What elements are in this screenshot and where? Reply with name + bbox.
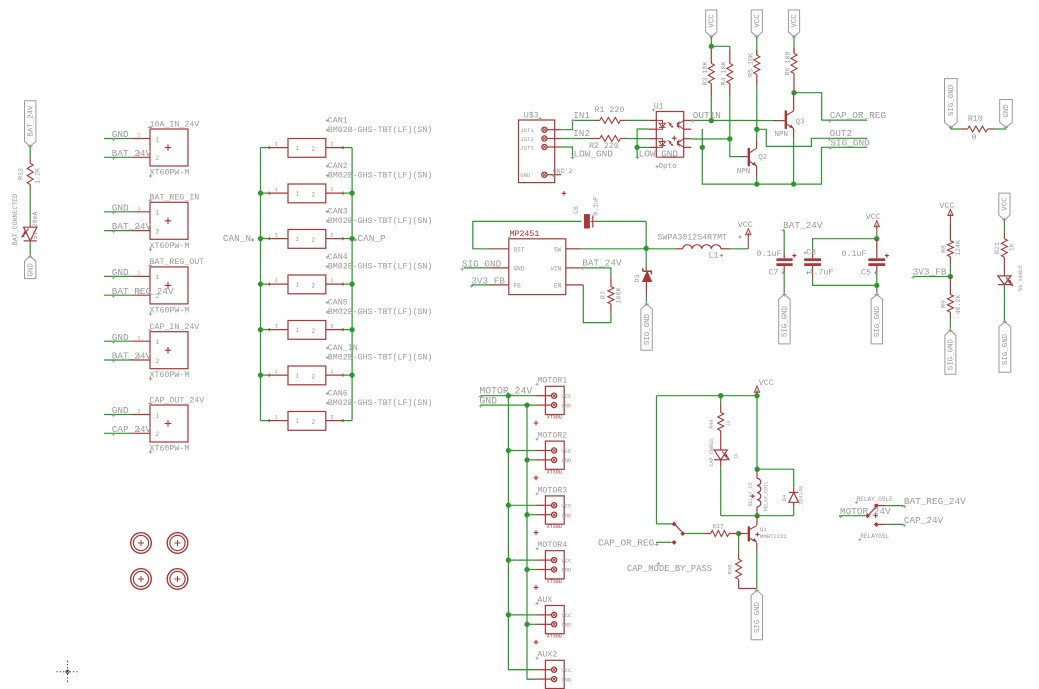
svg-text:1: 1 [156, 210, 160, 217]
ground flag SIG_GND (R9) [945, 328, 956, 374]
svg-text:XT30U: XT30U [547, 524, 562, 530]
connector MOTOR4 XT30 [534, 541, 572, 590]
svg-text:MOTOR3: MOTOR3 [537, 486, 567, 495]
svg-text:SIG_GND: SIG_GND [948, 339, 956, 371]
svg-text:RELAY_G5LE: RELAY_G5LE [857, 496, 893, 503]
svg-text:CAN6: CAN6 [328, 389, 348, 398]
wire MOTOR_24V [479, 385, 536, 398]
transistor Q2 NPN [737, 129, 767, 176]
svg-text:Opto: Opto [659, 163, 678, 171]
supply flag VCC (R21) [999, 193, 1010, 222]
svg-text:VCC: VCC [759, 379, 774, 388]
svg-text:VCC: VCC [562, 504, 572, 510]
wire [729, 96, 731, 139]
svg-text:CAP_24V: CAP_24V [112, 424, 152, 435]
wire [261, 147, 353, 149]
svg-text:IN1: IN1 [573, 110, 590, 121]
svg-text:VCC: VCC [791, 14, 799, 28]
junction [700, 145, 705, 150]
connector CAP_OUT_24V XT60PW-M [132, 396, 205, 454]
svg-text:2: 2 [330, 413, 333, 420]
svg-text:MOTOR2: MOTOR2 [537, 432, 567, 441]
junction [791, 181, 796, 186]
wire BAT_24V (VIN) [581, 258, 622, 277]
wire (Q1 base) [737, 533, 748, 535]
junction [258, 372, 355, 377]
wire GND [104, 202, 132, 214]
node CAN_P [354, 233, 386, 244]
label 3V3_FB (MP2451) [470, 276, 506, 288]
wire [756, 85, 758, 129]
svg-text:SIG_GND: SIG_GND [948, 84, 956, 116]
svg-text:1: 1 [156, 412, 160, 419]
svg-text:R48: R48 [728, 565, 734, 575]
capacitor C6 origin [562, 191, 566, 195]
junction [874, 283, 879, 288]
junction [709, 118, 714, 123]
junction [644, 221, 649, 251]
svg-text:1: 1 [156, 274, 160, 281]
wire [756, 396, 758, 470]
wire [1003, 257, 1005, 276]
svg-text:VCC: VCC [562, 394, 572, 400]
svg-text:R9: R9 [940, 300, 947, 308]
svg-text:1: 1 [295, 282, 299, 289]
LED CAP_CHRGD [709, 438, 740, 466]
svg-text:GND: GND [562, 568, 572, 574]
svg-text:LOW_GND: LOW_GND [639, 148, 679, 159]
junction [506, 612, 530, 627]
svg-text:CAN2: CAN2 [328, 162, 348, 171]
wire (Q3 base) [774, 120, 785, 122]
svg-text:GND: GND [562, 403, 572, 409]
wire (Q3 emitter) [793, 129, 795, 185]
svg-text:D3: D3 [634, 275, 641, 283]
svg-text:NPN: NPN [775, 131, 789, 139]
wire [720, 460, 722, 516]
supply flag GND (right) [1000, 100, 1013, 130]
svg-text:RELAY_COIL: RELAY_COIL [764, 481, 770, 511]
svg-text:BAT_24V: BAT_24V [112, 351, 152, 362]
svg-text:SIG_GND: SIG_GND [462, 258, 502, 269]
label RELAYG5L [859, 533, 890, 541]
wire CAP_OR_REG [794, 93, 886, 123]
resistor R5 10K [747, 37, 759, 86]
resistor R47 [704, 523, 737, 536]
svg-text:EN: EN [554, 282, 562, 289]
connector CAN_IN BM02B-GHS-TBT(LF)(SN) [268, 344, 433, 385]
svg-text:GND: GND [562, 623, 572, 629]
svg-text:R21: R21 [994, 242, 1001, 254]
svg-text:GND: GND [1003, 104, 1011, 118]
svg-text:BAT_24V: BAT_24V [112, 148, 152, 159]
wire [261, 329, 353, 331]
wire [508, 670, 536, 679]
svg-text:FB: FB [514, 282, 522, 289]
svg-text:GND: GND [112, 332, 129, 343]
wire motor VCC bus [508, 396, 536, 670]
svg-text:CAN4: CAN4 [328, 253, 348, 262]
svg-text:GND: GND [112, 202, 129, 213]
svg-text:R4 10K: R4 10K [720, 62, 727, 86]
wire [261, 192, 353, 194]
connector CAP_IN_24V XT60PW-M [132, 323, 200, 381]
svg-text:2: 2 [311, 373, 315, 380]
transistor Q1 MMBT2222 [748, 516, 787, 542]
svg-text:XT60PW-M: XT60PW-M [150, 445, 190, 454]
wire [29, 146, 31, 158]
resistor R4 10K [720, 50, 732, 96]
svg-text:2: 2 [311, 328, 315, 335]
svg-text:BAT_24V: BAT_24V [783, 220, 823, 231]
resistor R48 [728, 534, 757, 589]
svg-text:1: 1 [156, 339, 160, 346]
svg-text:CAN_P: CAN_P [358, 233, 387, 244]
junction [718, 393, 760, 398]
svg-text:C8: C8 [806, 249, 816, 258]
capacitor C5 0.1uF [842, 239, 889, 278]
junction [506, 393, 530, 408]
resistor R2 220 [589, 136, 627, 151]
svg-text:SIG_GND: SIG_GND [874, 306, 882, 338]
svg-text:L1: L1 [709, 252, 719, 261]
svg-text:XT30U: XT30U [547, 634, 562, 640]
connector CAN1 BM02B-GHS-TBT(LF)(SN) [268, 116, 433, 157]
svg-text:R7: R7 [600, 291, 607, 299]
supply flag VCC (R5) [751, 10, 762, 39]
wire [721, 507, 794, 516]
label CAP_MODE_BY_PASS [627, 562, 712, 574]
junction (Q2 collector/R5) [754, 127, 759, 132]
svg-text:2: 2 [330, 140, 333, 147]
svg-text:2: 2 [330, 186, 333, 193]
relay common pole [865, 507, 878, 518]
svg-text:3V3_FB: 3V3_FB [471, 276, 505, 287]
svg-text:CAN_IN: CAN_IN [328, 344, 358, 353]
svg-text:XT30U: XT30U [547, 469, 562, 475]
svg-text:SIG GND: SIG GND [754, 601, 762, 633]
wire (EN pulldown) [583, 285, 611, 323]
svg-text:MOTOR_24V: MOTOR_24V [840, 506, 891, 517]
svg-text:MOTOR4: MOTOR4 [537, 541, 567, 550]
junction (Q1 base) [736, 531, 741, 536]
wire (BST loop) [473, 221, 646, 248]
svg-text:CAP_CHRGD: CAP_CHRGD [709, 438, 715, 466]
connector CAN3 BM02B-GHS-TBT(LF)(SN) [268, 207, 433, 248]
connector BAT_REG_OUT XT60PW-M [132, 258, 205, 316]
svg-text:GND: GND [562, 677, 572, 683]
label RELAY_G5LE [855, 496, 893, 504]
svg-text:VCC: VCC [562, 558, 572, 564]
connector CAN4 BM02B-GHS-TBT(LF)(SN) [268, 253, 433, 294]
wire (opto pin4) [637, 146, 649, 148]
wire GND (motors) [479, 396, 536, 408]
junction [258, 327, 355, 332]
svg-text:2: 2 [330, 322, 333, 329]
svg-text:CAP_IN_24V: CAP_IN_24V [150, 323, 200, 332]
svg-text:2: 2 [311, 191, 315, 198]
svg-text:BM02B-GHS-TBT(LF)(SN): BM02B-GHS-TBT(LF)(SN) [328, 170, 433, 180]
junction [948, 274, 953, 279]
svg-text:U1: U1 [654, 102, 664, 111]
connector 10A_IN_24V XT60PW-M [132, 120, 200, 178]
svg-text:SIG_GND: SIG_GND [830, 137, 870, 148]
wire GND [104, 267, 132, 279]
wire [29, 241, 31, 256]
svg-text:MOTOR1: MOTOR1 [537, 377, 567, 386]
svg-text:C7: C7 [769, 268, 779, 277]
mounting hole [167, 533, 188, 554]
svg-text:1: 1 [295, 191, 299, 198]
svg-text:C5: C5 [861, 268, 871, 277]
wire (opto pin3 / Q2 base) [691, 139, 747, 157]
wire [995, 127, 1007, 129]
svg-text:OUT1N: OUT1N [693, 110, 721, 121]
wire [261, 420, 353, 422]
origin marker [57, 661, 79, 683]
svg-text:1k: 1k [734, 453, 740, 459]
wire (D4 branch) [757, 469, 794, 487]
svg-text:2: 2 [330, 231, 333, 238]
svg-text:CAP_OUT_24V: CAP_OUT_24V [150, 396, 205, 405]
wire [508, 505, 536, 514]
ground flag SIG GND (Q1) [751, 588, 762, 640]
junction [709, 44, 714, 49]
resistor R1 220 [595, 106, 627, 123]
svg-text:BST: BST [514, 246, 525, 253]
ground flag GND [25, 254, 36, 279]
svg-text:R3 10K: R3 10K [702, 62, 709, 86]
svg-text:BAT_24V: BAT_24V [27, 105, 35, 137]
power VCC (C5) [866, 213, 881, 239]
wire [508, 560, 536, 569]
svg-text:4.7uF: 4.7uF [809, 268, 834, 277]
wire [783, 272, 785, 294]
label SIG_GND (MP2451) [461, 258, 502, 271]
wire CAP_24V [886, 515, 943, 527]
svg-text:SWPA3012S4R7MT: SWPA3012S4R7MT [657, 233, 727, 242]
svg-text:CAN_N: CAN_N [223, 233, 251, 244]
svg-text:5V 20mA: 5V 20mA [32, 212, 39, 240]
svg-text:CAN5: CAN5 [328, 298, 348, 307]
svg-text:1: 1 [295, 373, 299, 380]
inductor L1 SWPA3012S4R7MT [657, 233, 741, 260]
svg-text:GND'2: GND'2 [553, 168, 573, 175]
relay coil RELAY_COIL [748, 469, 770, 516]
svg-text:R47: R47 [713, 523, 724, 530]
svg-text:GND: GND [112, 129, 129, 140]
svg-text:2: 2 [311, 237, 315, 244]
diode D4 1N4148 [782, 486, 805, 507]
switch CAP_OR_REG/bypass [672, 521, 686, 544]
svg-text:VCC: VCC [562, 668, 572, 674]
wire (switch loop) [657, 396, 673, 524]
svg-text:BAT_24V: BAT_24V [112, 221, 152, 232]
svg-text:40.2k: 40.2k [955, 295, 962, 315]
svg-text:VIN: VIN [550, 265, 561, 272]
op-isolator U1 Opto [649, 102, 692, 171]
svg-text:2: 2 [156, 228, 160, 235]
svg-text:SIG_GND: SIG_GND [644, 314, 652, 346]
wire (C8 bottom) [813, 278, 877, 286]
svg-text:BM02B-GHS-TBT(LF)(SN): BM02B-GHS-TBT(LF)(SN) [328, 398, 433, 408]
svg-text:Q2: Q2 [758, 154, 767, 162]
wire SW node [581, 248, 676, 250]
svg-text:JST1: JST1 [520, 127, 534, 134]
junction (coil bottom) [755, 513, 760, 518]
wire [508, 615, 536, 624]
wire (Q1 emitter) [756, 543, 758, 589]
relay contact (NC) [875, 504, 887, 508]
wire BAT_24V (C7) [782, 220, 823, 252]
wire (Q2 emitter) [756, 166, 758, 184]
wire GND [104, 405, 132, 417]
connector AUX2 XT30 [536, 651, 572, 689]
wire [261, 238, 353, 240]
junction [874, 236, 879, 241]
wire [949, 264, 951, 277]
label CAP_OR_REG [598, 537, 672, 548]
label 3V3_FB [911, 267, 950, 280]
resistor R8 124K [940, 224, 962, 264]
svg-text:MP2451: MP2451 [510, 230, 540, 239]
resistor R3 10K [702, 50, 714, 96]
wire [710, 96, 712, 120]
svg-text:2: 2 [156, 358, 160, 365]
wire [951, 127, 961, 129]
svg-text:XT30U: XT30U [547, 579, 562, 585]
svg-text:VCC: VCC [866, 213, 881, 222]
resistor R10 0 [960, 115, 994, 143]
svg-text:2: 2 [330, 368, 333, 375]
svg-text:VCC: VCC [1002, 197, 1010, 211]
node CAN_N [223, 233, 254, 244]
svg-text:GND: GND [27, 263, 35, 277]
wire [711, 37, 730, 50]
power VCC (R8) [939, 202, 954, 224]
svg-text:Q1: Q1 [760, 526, 767, 533]
svg-text:BAT_CONNECTED: BAT_CONNECTED [12, 194, 19, 245]
capacitor C7 0.1uF [757, 250, 797, 277]
wire [730, 248, 749, 250]
svg-text:MMBT2222: MMBT2222 [760, 533, 787, 540]
wire MOTOR_24V (relay) [839, 506, 891, 519]
junction [506, 503, 530, 518]
svg-text:SIG_GND: SIG_GND [782, 306, 790, 338]
wire motor GND bus [527, 405, 536, 679]
capacitor C6 0.1uF [573, 196, 600, 228]
resistor R49 1k [709, 396, 732, 450]
svg-text:GND': GND' [520, 172, 533, 179]
resistor R7 100K [600, 277, 622, 314]
junction [727, 136, 732, 141]
ground flag SIG_GND (D3) [641, 302, 652, 351]
supply flag SIG_GND (R10) [945, 79, 958, 130]
svg-text:XT60PW-M: XT60PW-M [150, 169, 190, 178]
svg-text:R49: R49 [709, 419, 715, 428]
svg-text:AUX2: AUX2 [537, 651, 557, 660]
svg-text:R13: R13 [18, 168, 25, 180]
svg-text:RELAYG5L: RELAYG5L [860, 533, 889, 540]
wire BAT_REG_24V [104, 286, 174, 298]
svg-text:R6 100: R6 100 [785, 52, 792, 76]
svg-text:R5 10K: R5 10K [747, 53, 754, 77]
junction (coil top) [755, 467, 760, 472]
svg-text:LOW_GND: LOW_GND [574, 148, 614, 159]
svg-text:BM02B-GHS-TBT(LF)(SN): BM02B-GHS-TBT(LF)(SN) [328, 307, 433, 317]
svg-text:VCC: VCC [709, 14, 717, 28]
connector U$3 [519, 110, 562, 182]
svg-text:R10: R10 [968, 115, 983, 124]
svg-text:SIG_GND: SIG_GND [1002, 333, 1010, 365]
connector MOTOR2 XT30 [534, 432, 572, 481]
wire OUT1N [691, 110, 774, 122]
wire [949, 319, 951, 330]
svg-text:JST3: JST3 [520, 144, 533, 151]
svg-text:124K: 124K [955, 240, 962, 256]
wire LOW_GND (JST3) [561, 147, 613, 159]
svg-text:XT30U: XT30U [547, 415, 562, 421]
svg-text:1: 1 [295, 236, 299, 243]
junction (R6/Q3 collector) [791, 90, 796, 95]
svg-text:BAT_24V: BAT_24V [582, 258, 622, 269]
svg-text:CAP_OR_REG: CAP_OR_REG [598, 537, 655, 548]
wire BAT_24V [104, 148, 152, 160]
wire [685, 533, 705, 535]
svg-text:2: 2 [156, 431, 160, 438]
svg-text:BAT_REG_24V: BAT_REG_24V [904, 496, 966, 507]
supply flag BAT_24V [25, 101, 36, 149]
wire (C8 top) [813, 239, 877, 251]
wire CAN_N bus [260, 148, 262, 421]
svg-text:BM02B-GHS-TBT(LF)(SN): BM02B-GHS-TBT(LF)(SN) [328, 352, 433, 362]
svg-text:CAP_OR_REG: CAP_OR_REG [830, 110, 887, 121]
svg-text:1.2K: 1.2K [35, 168, 42, 184]
svg-text:GND: GND [479, 396, 497, 407]
wire GND [104, 129, 132, 141]
capacitor C8 4.7uF [804, 249, 834, 278]
svg-text:R8: R8 [940, 245, 947, 253]
connector MOTOR3 XT30 [534, 486, 572, 535]
junction [258, 281, 355, 286]
svg-text:BAT_REG_24V: BAT_REG_24V [112, 286, 174, 297]
svg-text:1N4148: 1N4148 [799, 486, 805, 505]
wire SIG_GND rail [702, 129, 870, 184]
svg-text:XT60PW-M: XT60PW-M [150, 371, 190, 380]
svg-text:BM02B-GHS-TBT(LF)(SN): BM02B-GHS-TBT(LF)(SN) [328, 125, 433, 135]
junction [634, 145, 639, 150]
svg-text:1: 1 [295, 145, 299, 152]
svg-text:0.1uF: 0.1uF [842, 250, 867, 259]
IC MP2451 [489, 230, 583, 294]
resistor R13 1.2K [18, 159, 42, 191]
svg-text:0.1uF: 0.1uF [593, 196, 600, 216]
svg-text:1k: 1k [1008, 243, 1015, 251]
svg-text:1: 1 [156, 136, 160, 143]
svg-text:1k: 1k [726, 420, 732, 426]
svg-text:GND: GND [514, 265, 525, 272]
svg-text:GND: GND [562, 458, 572, 464]
wire CAN_P bus [351, 148, 353, 421]
svg-text:VCC: VCC [738, 221, 753, 230]
ground flag SIG_GND (C7) [779, 292, 790, 344]
wire OUT2 [757, 128, 868, 146]
svg-text:3V3_FB: 3V3_FB [913, 267, 947, 278]
power VCC (relay) [754, 379, 773, 396]
label GND'2 [552, 168, 573, 177]
svg-text:D4: D4 [782, 495, 788, 501]
relay contact (NO) [874, 522, 887, 527]
